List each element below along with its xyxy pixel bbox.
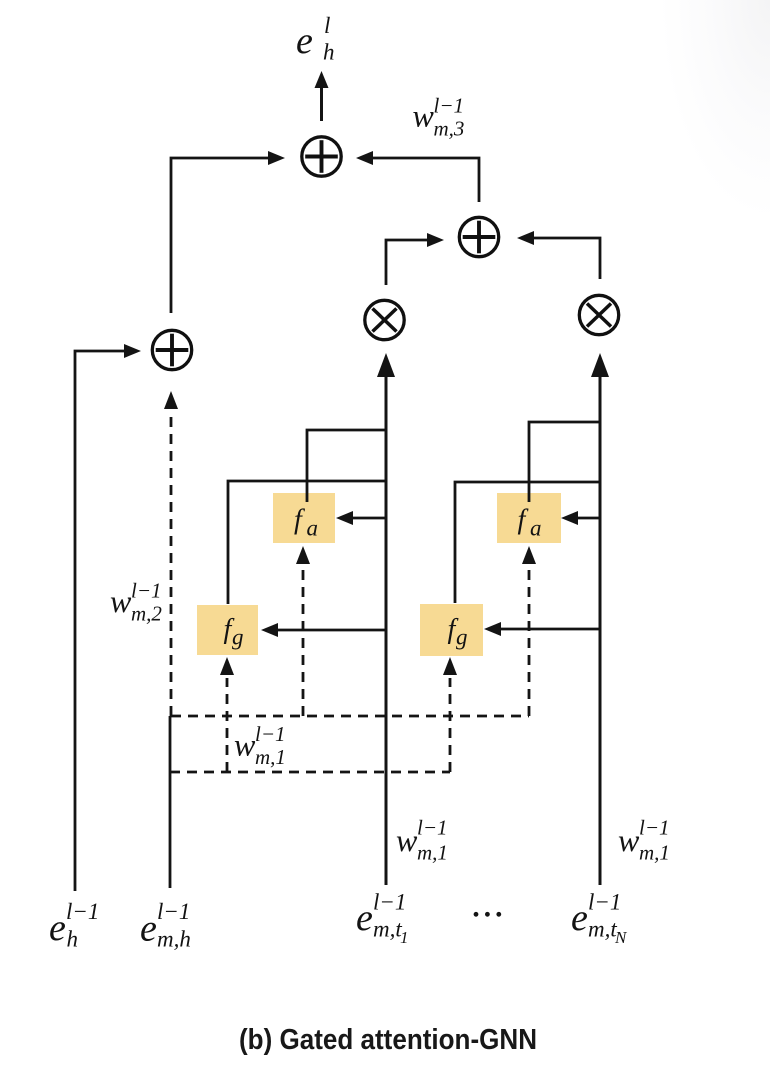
page corner shading [660, 0, 770, 220]
wire: right f_g output elbow [455, 482, 599, 603]
wire: w_m,3 line from right adder riser into top adder [373, 158, 479, 202]
wire: dashed riser into left f_g [226, 678, 229, 772]
wire: arrow into left f_a [353, 517, 386, 520]
label e_m,h^l-1 [140, 899, 191, 952]
svg-text:w: w [396, 822, 418, 858]
svg-text:l−1: l−1 [66, 899, 99, 924]
multiplier left [365, 300, 404, 339]
adder right [459, 217, 498, 256]
adder top [302, 137, 341, 176]
svg-text:l−1: l−1 [588, 890, 621, 915]
svg-text:(b) Gated attention-GNN: (b) Gated attention-GNN [239, 1024, 537, 1056]
svg-text:g: g [456, 625, 468, 650]
label f_g right [448, 614, 468, 650]
box f_a right [497, 493, 561, 543]
box f_g right [420, 604, 483, 656]
wire: left multiplier elbow into right adder [386, 240, 427, 285]
label f_g left [224, 614, 244, 650]
svg-text:l−1: l−1 [417, 816, 448, 840]
svg-text:e: e [140, 908, 157, 950]
label w_m,1^l-1 (left) [234, 722, 286, 769]
svg-text:m,1: m,1 [417, 841, 448, 865]
wire: dashed riser into left f_a [302, 565, 305, 716]
ellipsis dots [474, 912, 502, 917]
label w_m,3^l-1 [413, 94, 465, 141]
svg-text:g: g [232, 625, 244, 650]
box f_g left [197, 605, 258, 655]
wire: arrow into right f_g [501, 628, 599, 631]
wire: dashed horizontal 1 [171, 715, 529, 718]
label w_m,1^l-1 (right) [618, 816, 670, 865]
label w_m,2^l-1 [110, 579, 162, 626]
svg-text:l−1: l−1 [434, 94, 465, 118]
wire: center column e_m,t1 up to left multiplier [385, 377, 388, 885]
wire: arrow into left f_g [278, 629, 386, 632]
wire: dashed horizontal 2 [170, 771, 450, 774]
label f_a left [294, 505, 318, 541]
svg-text:N: N [614, 928, 628, 947]
svg-text:a: a [530, 516, 542, 541]
svg-text:w: w [413, 98, 435, 134]
label e_m,t1^l-1 [356, 890, 409, 948]
label e_h^l-1 [49, 899, 99, 952]
svg-text:w: w [618, 822, 640, 858]
svg-text:e: e [356, 897, 373, 939]
svg-text:w: w [234, 727, 256, 763]
svg-text:m,t: m,t [588, 917, 617, 942]
wire: right multiplier elbow into right adder [534, 238, 600, 279]
wire: e_h riser to left adder [75, 351, 125, 891]
svg-text:l−1: l−1 [157, 899, 190, 924]
wire: top adder output arrow [320, 88, 323, 121]
wire: dashed riser into right f_g [449, 678, 452, 772]
label e_h^l (output) [296, 13, 335, 65]
svg-text:m,1: m,1 [639, 841, 670, 865]
svg-text:w: w [110, 583, 132, 619]
svg-text:e: e [49, 907, 66, 949]
svg-text:m,t: m,t [373, 917, 402, 942]
svg-text:m,h: m,h [157, 927, 191, 952]
svg-text:h: h [67, 927, 79, 952]
svg-text:l−1: l−1 [373, 890, 406, 915]
svg-text:l−1: l−1 [131, 579, 162, 603]
svg-text:e: e [571, 897, 588, 939]
box f_a left [273, 493, 335, 543]
wire: right column e_m,tN up to right multiplier [599, 377, 602, 885]
svg-text:1: 1 [400, 928, 409, 947]
svg-text:e: e [296, 20, 313, 62]
wire: right f_a output elbow [529, 422, 599, 502]
svg-text:m,2: m,2 [131, 602, 162, 626]
wire: left f_a output elbow [307, 430, 386, 502]
svg-text:l−1: l−1 [255, 722, 286, 746]
svg-text:a: a [307, 516, 319, 541]
svg-text:h: h [323, 40, 335, 65]
wire: left adder output to top adder [171, 158, 268, 313]
svg-text:l−1: l−1 [639, 816, 670, 840]
wire: left f_g output elbow [228, 481, 386, 604]
label f_a right [518, 505, 542, 541]
label w_m,1^l-1 (center) [396, 816, 448, 865]
wire: dashed w_m,2 line up to left adder [170, 410, 173, 716]
label e_m,tN^l-1 [571, 890, 628, 948]
svg-text:m,3: m,3 [434, 117, 465, 141]
svg-text:l: l [324, 13, 330, 38]
svg-text:m,1: m,1 [255, 745, 286, 769]
wire: dashed riser into right f_a [528, 565, 531, 716]
multiplier right [579, 295, 618, 334]
wire: e_m,h riser (solid part) [169, 716, 172, 888]
wire: arrow into right f_a [578, 517, 599, 520]
adder left [152, 330, 191, 369]
